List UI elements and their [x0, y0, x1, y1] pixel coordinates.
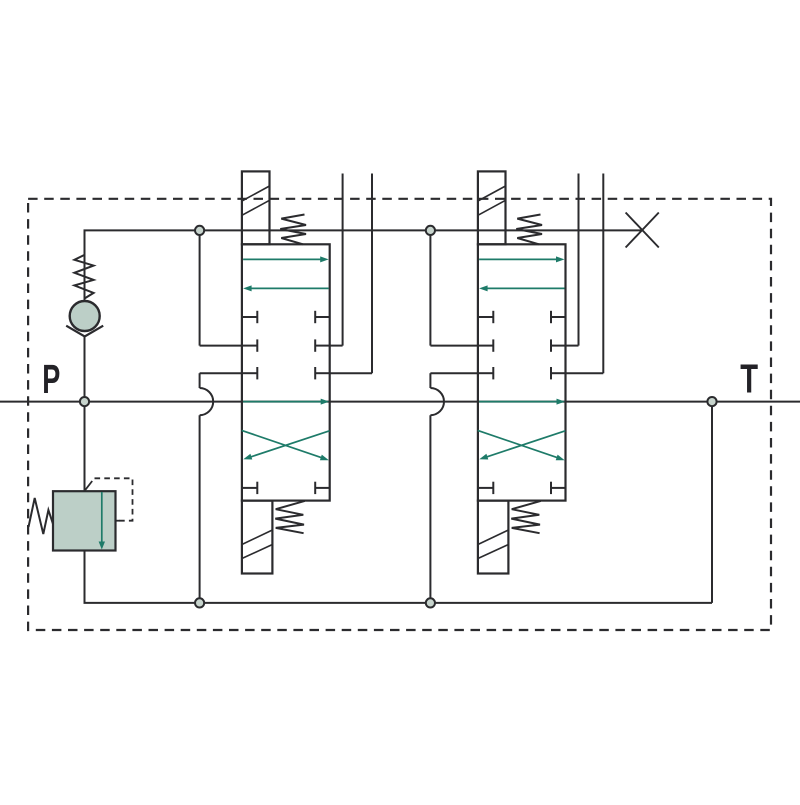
- valve V2 P-line flow arrow: [479, 401, 558, 403]
- valve V2 port stubs row3: [478, 372, 493, 374]
- valve V1 top bus junction node: [195, 226, 204, 235]
- relief valve pilot line (dashed): [85, 481, 93, 491]
- relief valve RV1 body: [53, 491, 116, 550]
- valve V2 top operator box (hatched): [478, 171, 506, 244]
- left branch vertical wire: [84, 230, 86, 301]
- valve V1 spool arrow upper right: [243, 258, 322, 260]
- valve V1 supply line from top bus junction to row2 left port: [199, 230, 201, 345]
- valve V1 port stubs row2: [242, 345, 257, 347]
- valve V2 supply line from top bus junction to row2 left port: [429, 230, 431, 345]
- valve V1 work port B line: [371, 174, 373, 374]
- svg-text:P: P: [42, 358, 60, 403]
- valve V1 return line row3 left port down to bottom bus with hop over P line: [200, 372, 242, 374]
- valve V1 bottom operator hatch lines: [242, 530, 273, 545]
- valve V1 port stubs row4: [242, 487, 257, 489]
- valve V2 top return spring: [516, 215, 542, 245]
- bottom bus wire: [84, 602, 713, 604]
- T branch vertical wire: [711, 402, 713, 603]
- check valve seat: [66, 326, 103, 337]
- dashed enclosure border: [28, 199, 771, 630]
- plugged port symbol X: [626, 213, 659, 248]
- valve V1 top operator box (hatched): [242, 171, 270, 244]
- valve V1 bottom return spring: [275, 501, 305, 533]
- node P junction dot: [80, 397, 89, 406]
- P-T main line: [0, 401, 800, 403]
- node T junction dot: [707, 397, 716, 406]
- valve V2 work port B line: [602, 174, 604, 374]
- valve V1 port stubs row1: [242, 316, 257, 318]
- check valve ball: [70, 301, 100, 331]
- valve V2 spool arrow upper right: [479, 258, 558, 260]
- check valve spring: [74, 255, 93, 299]
- valve section V2 envelope: [478, 244, 566, 500]
- valve V2 top operator hatch lines: [478, 186, 506, 201]
- relief valve flow arrow: [101, 492, 103, 544]
- valve V2 bottom bus junction node: [426, 598, 435, 607]
- valve V2 bottom return spring: [511, 501, 541, 533]
- valve V2 work port A line: [578, 174, 580, 346]
- relief valve spring: [29, 498, 54, 534]
- valve V1 top return spring: [280, 215, 306, 245]
- valve V2 spool arrow upper left: [486, 287, 565, 289]
- valve V1 spool arrow upper left: [250, 287, 329, 289]
- valve V2 top bus junction node: [426, 226, 435, 235]
- valve V1 work port A line: [342, 174, 344, 346]
- valve V1 port stubs row3: [242, 372, 257, 374]
- valve V2 return line row3 left port down to bottom bus with hop over P line: [430, 372, 478, 374]
- valve V2 bottom operator hatch lines: [478, 530, 509, 545]
- valve V1 crossed arrows: [242, 430, 323, 458]
- valve V2 crossed arrows: [478, 430, 559, 458]
- valve V2 port stubs row2: [478, 345, 493, 347]
- svg-text:T: T: [740, 355, 758, 401]
- valve V1 bottom bus junction node: [195, 598, 204, 607]
- valve V2 port stubs row4: [478, 487, 493, 489]
- valve V2 port stubs row1: [478, 316, 493, 318]
- top bus wire: [84, 229, 643, 231]
- valve V1 bottom operator box (hatched): [242, 501, 273, 574]
- valve V2 bottom operator box (hatched): [478, 501, 509, 574]
- valve V1 P-line flow arrow: [243, 401, 323, 403]
- valve section V1 envelope: [242, 244, 330, 500]
- valve V1 top operator hatch lines: [242, 186, 270, 201]
